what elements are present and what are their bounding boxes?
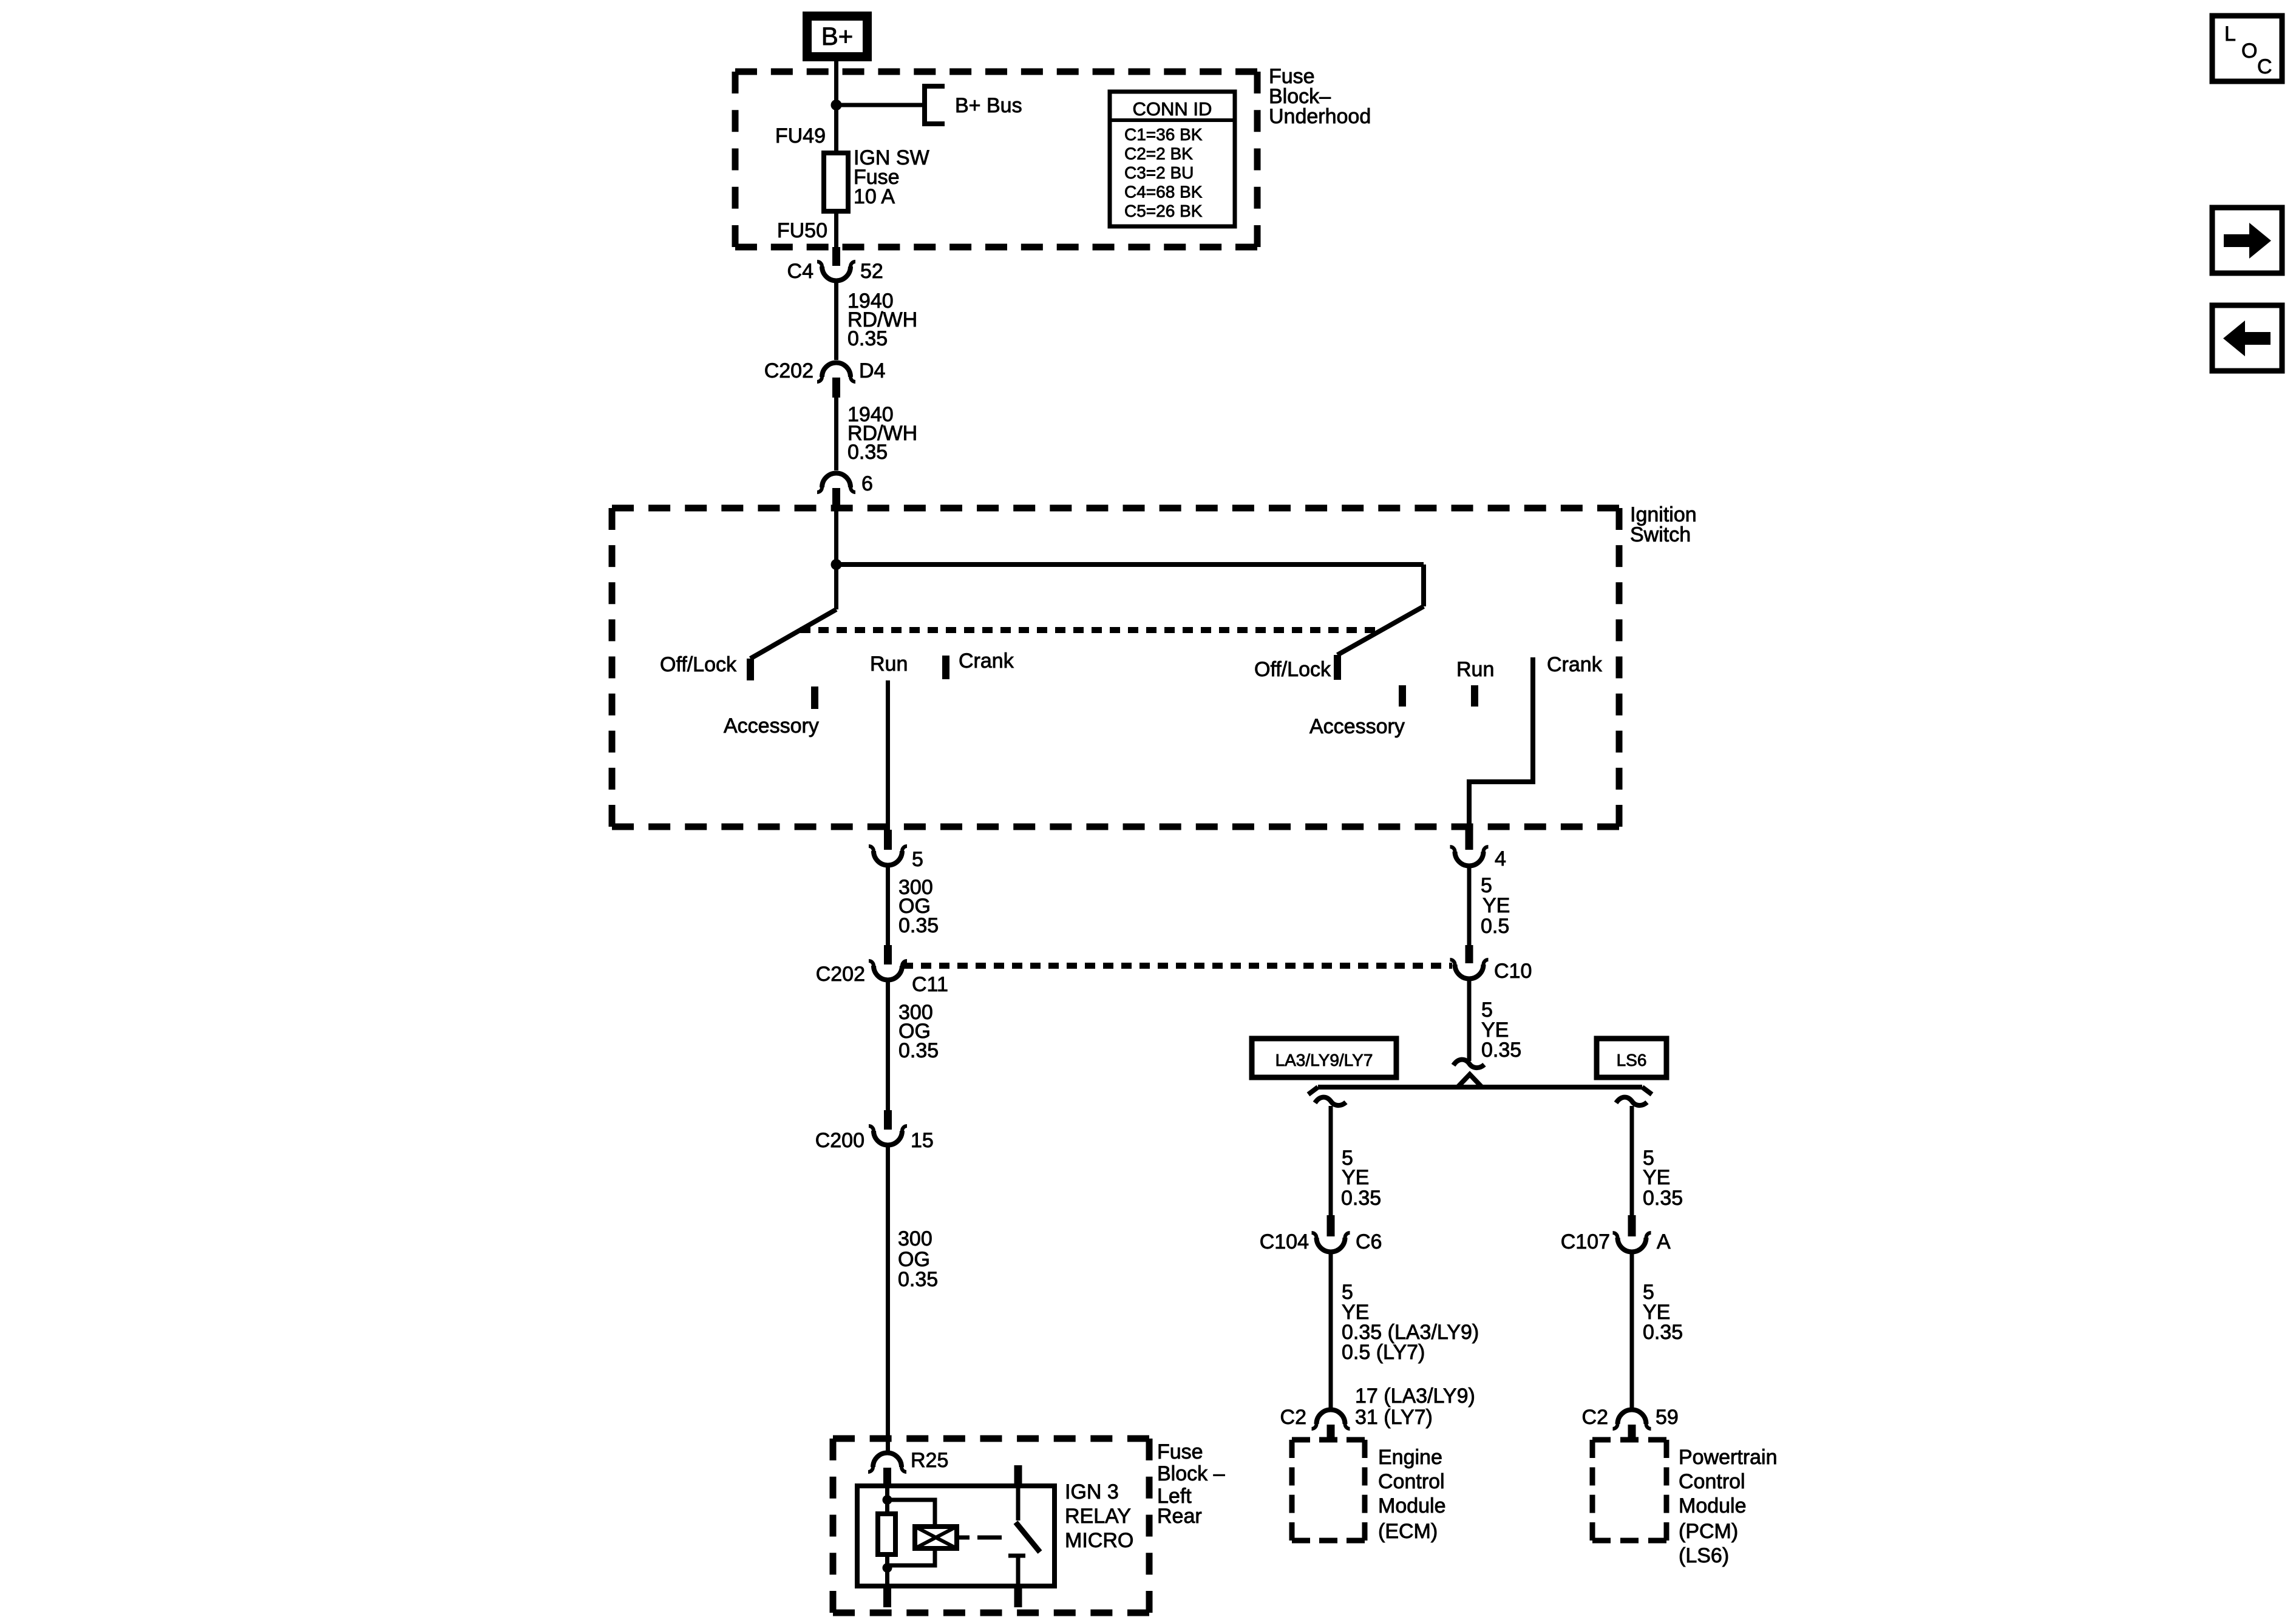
- svg-text:YE: YE: [1483, 894, 1510, 917]
- svg-text:C10: C10: [1494, 960, 1532, 983]
- svg-text:B+ Bus: B+ Bus: [955, 94, 1022, 117]
- svg-text:YE: YE: [1643, 1166, 1670, 1189]
- svg-text:0.35: 0.35: [1481, 1039, 1521, 1062]
- svg-text:CONN ID: CONN ID: [1133, 98, 1212, 120]
- svg-text:300: 300: [898, 1227, 932, 1250]
- svg-text:6: 6: [861, 472, 873, 495]
- svg-text:C4=68 BK: C4=68 BK: [1124, 183, 1203, 202]
- svg-text:C: C: [2257, 55, 2272, 78]
- svg-text:A: A: [1657, 1230, 1671, 1253]
- svg-text:LA3/LY9/LY7: LA3/LY9/LY7: [1275, 1051, 1373, 1070]
- svg-text:C2: C2: [1280, 1406, 1306, 1429]
- svg-text:YE: YE: [1342, 1166, 1369, 1189]
- svg-text:Off/Lock: Off/Lock: [660, 653, 737, 676]
- svg-text:C2: C2: [1582, 1406, 1608, 1429]
- svg-text:FU49: FU49: [775, 124, 826, 147]
- svg-text:0.35: 0.35: [898, 914, 939, 937]
- svg-text:Underhood: Underhood: [1269, 105, 1371, 128]
- svg-text:FU50: FU50: [777, 219, 827, 242]
- svg-text:L: L: [2224, 22, 2236, 46]
- svg-text:RELAY: RELAY: [1065, 1505, 1131, 1528]
- svg-text:C200: C200: [815, 1129, 864, 1152]
- svg-text:C202: C202: [764, 359, 813, 382]
- svg-text:R25: R25: [911, 1449, 948, 1472]
- svg-text:C2=2 BK: C2=2 BK: [1124, 144, 1193, 163]
- svg-text:59: 59: [1656, 1406, 1679, 1429]
- svg-text:Accessory: Accessory: [724, 714, 819, 737]
- svg-text:Switch: Switch: [1630, 523, 1691, 546]
- svg-text:Control: Control: [1378, 1470, 1445, 1493]
- svg-text:Control: Control: [1679, 1470, 1745, 1493]
- svg-text:Fuse: Fuse: [1157, 1440, 1203, 1463]
- svg-text:C5=26 BK: C5=26 BK: [1124, 202, 1203, 220]
- svg-text:C6: C6: [1356, 1230, 1382, 1253]
- svg-text:Crank: Crank: [1547, 653, 1603, 676]
- svg-text:0.35: 0.35: [898, 1268, 938, 1291]
- svg-text:MICRO: MICRO: [1065, 1529, 1133, 1552]
- svg-text:Module: Module: [1378, 1494, 1446, 1517]
- svg-text:0.5 (LY7): 0.5 (LY7): [1342, 1341, 1425, 1364]
- svg-text:(LS6): (LS6): [1679, 1544, 1729, 1567]
- svg-text:0.35: 0.35: [1341, 1187, 1381, 1210]
- svg-text:C107: C107: [1561, 1230, 1610, 1253]
- svg-text:O: O: [2241, 39, 2257, 63]
- svg-text:0.5: 0.5: [1481, 915, 1509, 938]
- svg-text:0.35: 0.35: [847, 441, 888, 464]
- svg-text:B+: B+: [821, 22, 854, 50]
- svg-text:0.35: 0.35: [847, 327, 888, 350]
- svg-text:0.35: 0.35: [1643, 1321, 1683, 1344]
- svg-text:C4: C4: [787, 260, 813, 283]
- svg-text:Block –: Block –: [1157, 1462, 1225, 1485]
- svg-text:C104: C104: [1260, 1230, 1309, 1253]
- svg-text:LS6: LS6: [1617, 1051, 1647, 1070]
- svg-text:Run: Run: [870, 653, 908, 676]
- svg-text:(ECM): (ECM): [1378, 1520, 1438, 1543]
- svg-text:0.35: 0.35: [1643, 1187, 1683, 1210]
- svg-text:(PCM): (PCM): [1679, 1520, 1738, 1543]
- svg-text:Crank: Crank: [959, 649, 1014, 673]
- svg-text:17 (LA3/LY9): 17 (LA3/LY9): [1355, 1385, 1475, 1408]
- svg-text:IGN 3: IGN 3: [1065, 1480, 1119, 1503]
- svg-text:Module: Module: [1679, 1494, 1747, 1517]
- svg-text:D4: D4: [859, 359, 885, 382]
- svg-text:Run: Run: [1456, 658, 1494, 681]
- svg-text:Rear: Rear: [1157, 1505, 1202, 1528]
- svg-text:5: 5: [912, 848, 923, 871]
- svg-text:C3=2 BU: C3=2 BU: [1124, 163, 1194, 182]
- svg-text:0.35: 0.35: [898, 1039, 939, 1062]
- svg-text:Accessory: Accessory: [1309, 715, 1405, 738]
- svg-text:10 A: 10 A: [854, 185, 895, 208]
- svg-text:4: 4: [1495, 847, 1506, 870]
- svg-text:C202: C202: [816, 963, 865, 986]
- svg-text:Off/Lock: Off/Lock: [1254, 658, 1331, 681]
- svg-text:31 (LY7): 31 (LY7): [1355, 1406, 1433, 1429]
- svg-text:C1=36 BK: C1=36 BK: [1124, 125, 1203, 144]
- svg-text:Powertrain: Powertrain: [1679, 1446, 1778, 1469]
- svg-text:52: 52: [860, 260, 883, 283]
- svg-text:Engine: Engine: [1378, 1446, 1442, 1469]
- svg-text:15: 15: [911, 1129, 934, 1152]
- svg-text:C11: C11: [912, 973, 948, 996]
